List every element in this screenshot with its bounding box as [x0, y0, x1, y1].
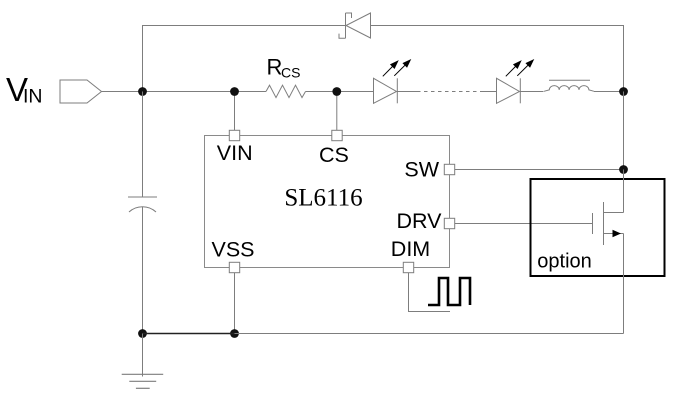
- PWM signal symbol: [428, 278, 470, 305]
- node VIN label: [6, 71, 43, 108]
- node junction dot G: [230, 329, 239, 338]
- wire source down: [623, 234, 625, 334]
- svg-text:VSS: VSS: [212, 238, 255, 262]
- capacitor C1: [128, 197, 157, 212]
- node junction dot A: [138, 87, 147, 96]
- inductor L1: [544, 80, 594, 91]
- svg-text:CS: CS: [281, 65, 300, 81]
- wire right vertical to SW node: [623, 92, 625, 170]
- svg-text:R: R: [267, 55, 283, 80]
- LED D2 light arrows: [383, 60, 410, 76]
- pin CS: [332, 130, 342, 140]
- node junction dot D: [619, 87, 628, 96]
- wire VSS drop: [234, 273, 236, 334]
- pin DRV: [444, 218, 454, 228]
- svg-text:IN: IN: [23, 86, 43, 108]
- LED D3 light arrows: [506, 60, 533, 76]
- wire drain to SW node: [623, 170, 625, 213]
- label RCS: [267, 55, 301, 81]
- wire left vertical to capacitor: [142, 92, 144, 198]
- node junction dot B: [230, 87, 239, 96]
- transistor Q1 (NMOS): [593, 202, 624, 245]
- svg-text:SW: SW: [404, 158, 439, 182]
- wire DIM drop: [409, 273, 451, 312]
- LED D3: [497, 78, 521, 103]
- transistor Q1 arrow: [613, 230, 622, 237]
- LED D2: [374, 78, 398, 103]
- svg-text:CS: CS: [319, 143, 349, 167]
- svg-text:VIN: VIN: [217, 141, 253, 165]
- node junction dot E (SW node): [619, 165, 628, 174]
- svg-text:DRV: DRV: [396, 209, 442, 233]
- wire dashed LED string: [397, 91, 417, 93]
- resistor RCS: [266, 85, 306, 97]
- wire bottom black segment: [143, 333, 235, 335]
- wire capacitor to ground node: [142, 207, 144, 334]
- wire inductor to right rail: [594, 91, 624, 93]
- wire top-left vertical: [143, 26, 346, 92]
- diode D1 (Schottky, top): [339, 13, 371, 38]
- node junction dot C: [332, 87, 341, 96]
- pin DIM: [403, 262, 413, 272]
- svg-text:SL6116: SL6116: [284, 184, 362, 211]
- option box: [531, 179, 665, 276]
- svg-text:option: option: [537, 251, 592, 273]
- ground: [122, 374, 164, 388]
- svg-text:DIM: DIM: [391, 237, 430, 261]
- wire main rail left: [102, 91, 267, 93]
- pin SW: [444, 164, 454, 174]
- wire ground stub: [142, 334, 144, 377]
- node junction dot F (ground node): [138, 329, 147, 338]
- wire CS pin drop: [336, 92, 338, 131]
- input connector VIN: [60, 80, 102, 103]
- wire resistor to LED1: [306, 91, 374, 93]
- wire SW to right rail: [455, 169, 624, 171]
- wire VIN pin drop: [234, 92, 236, 131]
- IC U1 SL6116 body: [205, 136, 450, 268]
- wire DRV to gate: [455, 223, 592, 225]
- pin VSS: [229, 262, 239, 272]
- wire top rail right: [371, 26, 624, 92]
- pin VIN: [229, 130, 239, 140]
- wire bottom rail: [235, 333, 624, 335]
- wire LED to inductor: [520, 91, 543, 93]
